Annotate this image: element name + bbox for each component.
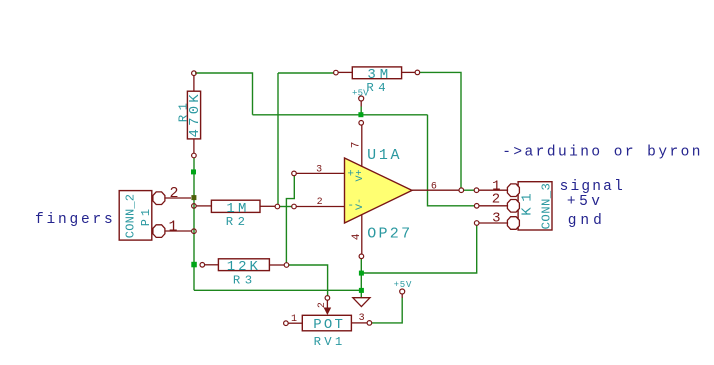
node junction R1 bottom: [191, 169, 196, 174]
wire feedback vertical to R2 right: [277, 73, 279, 205]
node junction gnd rail: [359, 271, 364, 276]
svg-text:->arduino or byron: ->arduino or byron: [502, 145, 703, 161]
wire pin4 to ground: [360, 259, 362, 298]
ground: [353, 298, 370, 307]
text signal: [560, 179, 625, 195]
svg-text:3: 3: [359, 313, 365, 324]
svg-text:2: 2: [317, 197, 323, 208]
text +5v: [567, 194, 604, 210]
wire gnd rail to K1 pin3: [361, 225, 476, 273]
power +5V top pin: [360, 101, 362, 107]
node junction +5v rail: [358, 112, 363, 117]
wire feedback node to 3M left: [278, 72, 334, 74]
svg-text:2: 2: [492, 192, 500, 208]
svg-text:1: 1: [168, 219, 177, 236]
wire +5v top stub: [360, 107, 362, 113]
svg-text:470K: 470K: [187, 91, 203, 137]
wire bottom left rail: [194, 289, 361, 291]
potentiometer RV1: [284, 296, 372, 349]
svg-text:+5V: +5V: [394, 280, 413, 290]
svg-text:OP27: OP27: [367, 225, 412, 242]
wire R3 right to POT wiper: [289, 265, 328, 296]
svg-text:R3: R3: [233, 274, 257, 288]
svg-text:signal: signal: [560, 179, 625, 195]
resistor R3: [200, 259, 289, 288]
text arduino note: [502, 145, 703, 161]
resistor R4: [334, 67, 420, 95]
svg-text:R2: R2: [226, 215, 250, 229]
svg-text:4: 4: [351, 233, 363, 240]
svg-text:gnd: gnd: [568, 213, 606, 229]
svg-text:K1: K1: [520, 188, 536, 216]
wire R2 right to opamp pin2: [280, 206, 293, 208]
wire R1 top to feedback corner: [195, 73, 253, 115]
resistor R2: [192, 200, 280, 229]
svg-text:6: 6: [431, 182, 437, 193]
wire left vertical node: [193, 158, 195, 290]
svg-text:+5V: +5V: [352, 89, 369, 99]
power +5V bottom pin: [401, 294, 403, 298]
svg-text:R4: R4: [366, 81, 390, 95]
svg-text:U1A: U1A: [367, 147, 402, 164]
wire +5v to POT pin3: [372, 298, 402, 323]
node junction P1 pin2: [191, 195, 196, 200]
connector K1: [474, 178, 553, 230]
resistor R1: [177, 71, 203, 158]
svg-text:2: 2: [169, 185, 178, 202]
svg-text:7: 7: [350, 142, 362, 149]
svg-text:V-: V-: [355, 198, 366, 210]
svg-text:2: 2: [317, 302, 328, 308]
svg-text:P1: P1: [139, 206, 153, 226]
svg-text:RV1: RV1: [314, 335, 346, 349]
wire pin6 to K1 pin1: [464, 189, 475, 191]
power +5V bottom: [394, 280, 413, 294]
node junction bottom rail: [359, 288, 364, 293]
svg-text:3: 3: [492, 211, 500, 227]
connector P1: [119, 185, 196, 240]
wire 3M right to output: [420, 72, 462, 187]
svg-text:V+: V+: [355, 169, 366, 181]
svg-text:3: 3: [316, 165, 322, 176]
power +5V top: [352, 89, 369, 102]
svg-text:+: +: [347, 168, 354, 180]
svg-text:-: -: [347, 200, 354, 212]
svg-text:1: 1: [291, 314, 297, 325]
wire +5v rail horizontal: [253, 114, 428, 116]
text gnd: [568, 213, 606, 229]
op-amp U1: [292, 121, 464, 259]
svg-text:CONN_3: CONN_3: [540, 183, 554, 230]
svg-text:POT: POT: [313, 317, 345, 333]
svg-text:fingers: fingers: [35, 212, 116, 228]
node junction R3 left: [191, 262, 197, 268]
text fingers: [35, 212, 116, 228]
svg-text:CONN_2: CONN_2: [123, 194, 137, 238]
wire +5v rail down to K1 pin2: [428, 115, 475, 206]
wire opamp pin3 down jog: [286, 176, 294, 263]
svg-text:+5v: +5v: [567, 194, 604, 210]
